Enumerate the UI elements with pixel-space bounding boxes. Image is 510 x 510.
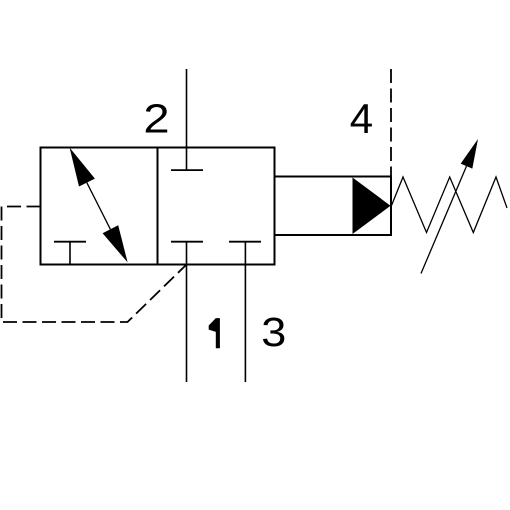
pilot operator box <box>275 177 392 236</box>
valve body left envelope (square 1) <box>41 148 158 265</box>
svg-text:2: 2 <box>143 96 169 141</box>
port 1 line <box>186 242 188 382</box>
svg-text:3: 3 <box>261 310 286 356</box>
flow-path double arrow shaft (left envelope) <box>87 183 111 230</box>
adjustable spring zigzag <box>392 177 508 233</box>
spring adjustment arrow shaft <box>421 166 467 273</box>
pilot line dashed (left loop) <box>2 207 187 323</box>
spring adjustment arrowhead <box>461 139 478 169</box>
port 2 blocked bar <box>171 169 203 171</box>
pilot operator triangle <box>353 178 391 235</box>
port 1 blocked bar <box>171 241 203 243</box>
blocked port symbol in left envelope (bar) <box>54 241 86 243</box>
flow-path arrowhead upper <box>70 148 95 187</box>
svg-text:4: 4 <box>350 95 373 142</box>
label port 1 <box>209 318 220 348</box>
blocked port symbol in left envelope (stub) <box>69 242 71 265</box>
port 3 line <box>244 242 246 382</box>
port 4 pilot line dashed <box>390 69 392 177</box>
valve body right envelope (square 2) <box>158 148 275 265</box>
flow-path arrowhead lower <box>103 225 128 262</box>
port 3 blocked bar <box>229 241 261 243</box>
port 2 line <box>186 69 188 170</box>
